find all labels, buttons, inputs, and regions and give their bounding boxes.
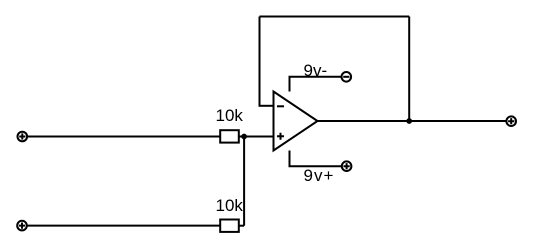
wire feedback right vertical down to output node [408,17,410,122]
op-amp U1 [274,92,318,151]
wire feedback left vertical (inverting input up to loop top) [259,17,261,106]
resistor R1 [220,130,239,142]
svg-text:9v+: 9v+ [304,166,335,185]
terminal input bottom (circle-plus) [17,221,27,231]
node junction at feedback/output [406,118,412,124]
svg-text:10k: 10k [216,106,244,125]
resistor R2 [220,220,239,232]
terminal 9v+ supply (circle-plus) [342,161,352,171]
svg-text:10k: 10k [216,196,244,215]
wire R1 to non-inverting input [239,136,274,138]
svg-text:9v-: 9v- [304,61,328,80]
op-amp inverting (-) pin mark [277,105,284,107]
wire V- power pin of U1 [290,77,342,92]
node junction at R1 output [241,134,247,140]
terminal 9v- supply (circle-minus) [342,72,352,82]
op-amp non-inverting (+) pin mark [277,133,284,140]
terminal output (circle-plus) [506,116,516,126]
wire output [318,120,507,122]
wire input top to R1 [28,136,220,138]
wire input bottom to R2 [27,225,220,227]
wire feedback top horizontal [260,16,410,18]
wire R2 to vertical node wire [239,225,244,227]
wire inverting input [259,105,274,107]
wire V+ power pin of U1 [290,151,342,167]
terminal input top (circle-plus) [18,132,28,142]
wire vertical node down to R2 [243,137,245,226]
